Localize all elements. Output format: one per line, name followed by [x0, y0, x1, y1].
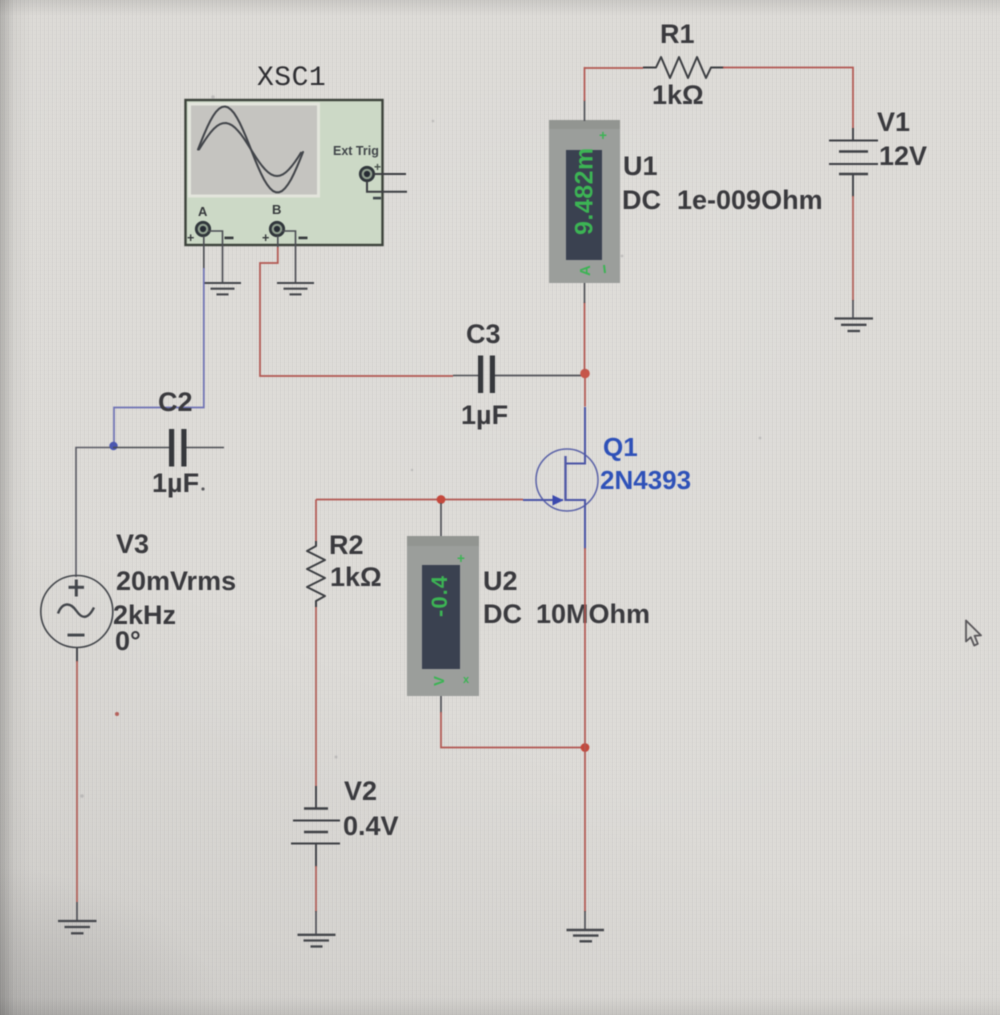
svg-text:V1: V1: [877, 107, 910, 137]
svg-text:U2: U2: [483, 566, 518, 596]
wire scope B+ to C3 (red): [260, 247, 453, 376]
R2 labels: [329, 530, 382, 592]
wire drain to C3 node (red): [584, 372, 586, 407]
ground under V3: [58, 921, 97, 933]
battery V1: [829, 128, 878, 197]
oscilloscope XSC1 body: [186, 100, 383, 245]
multimeter U2 top lead: [440, 503, 442, 537]
svg-text:1kΩ: 1kΩ: [652, 80, 704, 110]
svg-text:U1: U1: [623, 151, 658, 181]
svg-text:XSC1: XSC1: [257, 63, 326, 94]
wire scope B+ pigtail: [277, 236, 279, 248]
wire B- pigtail to ground: [282, 231, 296, 282]
svg-text:R1: R1: [660, 19, 695, 49]
wire C2 node to V3 top: [76, 448, 110, 578]
ground under V2: [298, 935, 336, 947]
transistor Q1 JFET 2N4393: [523, 407, 598, 549]
svg-text:2N4393: 2N4393: [600, 465, 691, 495]
wire U1 top lead: [584, 67, 586, 121]
scope channel A terminal: [187, 222, 234, 245]
multimeter U2 body: [407, 536, 479, 696]
svg-text:1µF: 1µF: [461, 400, 508, 430]
svg-text:+: +: [457, 551, 465, 566]
ground under A-: [204, 283, 241, 294]
svg-text:9.482m: 9.482m: [571, 147, 599, 235]
svg-text:B: B: [272, 202, 281, 217]
svg-text:+: +: [262, 231, 269, 245]
wire U1 to R1 (red): [585, 67, 644, 69]
svg-text:0°: 0°: [115, 626, 141, 656]
V1 labels: [877, 107, 927, 171]
wire junction to ground (red): [584, 747, 586, 930]
U1 labels: [622, 151, 823, 215]
svg-text:V2: V2: [344, 776, 377, 806]
wire R1 to V1 (red): [723, 68, 853, 130]
wire V1 to ground (red): [852, 196, 854, 318]
ground under V1: [835, 319, 874, 332]
wire U2 bottom to source junction (red): [441, 696, 585, 748]
capacitor C3: [453, 356, 581, 394]
node junction at C2 left (blue dot): [109, 442, 117, 450]
svg-text:C2: C2: [158, 387, 193, 417]
ground under B-: [277, 283, 314, 294]
U2 labels: [483, 566, 650, 629]
svg-text:+: +: [599, 128, 607, 143]
scope channel B terminal: [262, 222, 308, 245]
svg-text:V: V: [431, 676, 448, 686]
wire U1 bottom to C3 node (red): [584, 283, 586, 371]
Ext Trig terminal: [360, 160, 381, 199]
node junction source/U2/ground (red dot): [581, 743, 590, 752]
svg-text:Q1: Q1: [603, 432, 638, 462]
svg-text:12V: 12V: [879, 141, 927, 171]
svg-text:10MOhm: 10MOhm: [536, 599, 650, 629]
svg-text:1µF: 1µF: [152, 468, 199, 498]
wire gate net horizontal (red): [316, 499, 523, 501]
U2 display text -0.4 (rotated): [427, 551, 470, 686]
svg-text:x: x: [463, 674, 470, 686]
wire V2 to ground: [315, 866, 317, 935]
V2 labels: [343, 776, 399, 841]
ammeter U1 body: [549, 120, 620, 283]
dust specks: [80, 95, 761, 798]
U1 display text 9.482m (rotated): [571, 128, 608, 276]
svg-text:1e-009Ohm: 1e-009Ohm: [677, 185, 823, 215]
wire source to bottom junction (red): [584, 548, 586, 748]
svg-text:DC: DC: [483, 599, 522, 629]
Ext Trig wire stubs: [367, 174, 407, 192]
svg-text:A: A: [577, 265, 594, 276]
tiny red speck: [115, 712, 119, 716]
wire V3 bottom to ground: [76, 648, 78, 922]
wire scope A+ down-left to C2 node (blue): [203, 236, 205, 269]
node junction gate/R2/U2 (red dot): [437, 495, 446, 504]
wire R2 to V2 (red): [315, 607, 317, 787]
ground under source junction: [567, 930, 605, 941]
svg-text:0.4V: 0.4V: [343, 811, 399, 841]
wire A- pigtail to ground: [208, 231, 223, 282]
svg-text:R2: R2: [329, 530, 364, 560]
svg-text:A: A: [198, 204, 208, 219]
svg-text:-0.4: -0.4: [427, 575, 452, 617]
AC source V3: [41, 576, 113, 648]
svg-text:Ext Trig: Ext Trig: [333, 144, 379, 158]
Q1 labels: [600, 432, 691, 495]
svg-text:+: +: [374, 160, 381, 174]
oscilloscope screen: [190, 104, 319, 196]
svg-text:V3: V3: [116, 529, 149, 559]
resistor R1: [643, 57, 724, 78]
capacitor C2: [113, 429, 224, 467]
svg-text:+: +: [187, 231, 194, 245]
svg-text:20mVrms: 20mVrms: [116, 566, 236, 596]
wire R2 top lead: [315, 500, 317, 542]
battery V2: [291, 786, 340, 867]
svg-text:C3: C3: [466, 319, 501, 349]
mouse cursor: [966, 621, 981, 646]
svg-text:1kΩ: 1kΩ: [330, 562, 382, 592]
svg-text:DC: DC: [622, 185, 661, 215]
V3 labels: [113, 529, 236, 656]
R1 labels: [652, 19, 704, 110]
resistor R2: [307, 541, 325, 607]
node junction drain/C3/U1 (red dot): [580, 369, 590, 379]
